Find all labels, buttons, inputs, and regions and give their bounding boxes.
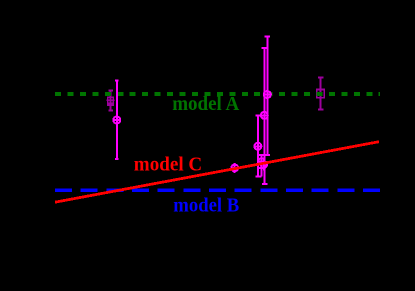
point P6 xyxy=(261,155,263,177)
point P2 xyxy=(234,163,236,173)
model A dotted green line xyxy=(55,92,380,96)
svg-text:model C: model C xyxy=(134,153,202,175)
point P1 xyxy=(116,81,118,160)
point P4 xyxy=(263,48,265,184)
model C solid red line (on top) xyxy=(55,142,379,203)
model B dashed blue line xyxy=(55,189,380,192)
point S1 errorbar xyxy=(110,91,112,111)
point P5 xyxy=(257,116,259,177)
dark magenta squares dataset (drawn first, under lines) xyxy=(107,78,325,111)
point P7 xyxy=(263,159,265,171)
point S2 errorbar xyxy=(320,78,322,110)
magenta circles dataset (over green/blue lines) xyxy=(113,37,272,184)
svg-text:model B: model B xyxy=(173,195,239,217)
svg-text:model A: model A xyxy=(172,93,240,115)
point P3 xyxy=(266,37,268,155)
